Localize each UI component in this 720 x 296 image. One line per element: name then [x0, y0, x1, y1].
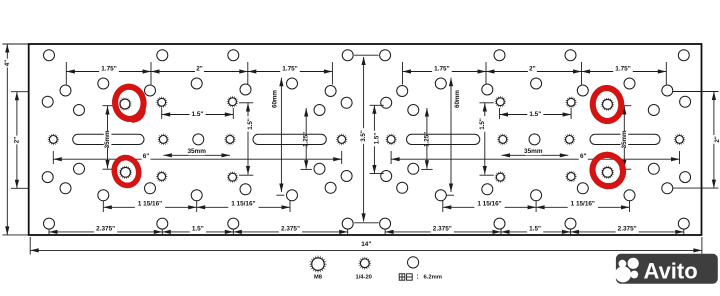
label 2in left — [13, 136, 21, 145]
svg-text:2.375": 2.375" — [618, 225, 637, 232]
dim 1.5in horizontal — [162, 108, 234, 119]
top dimension chain lines — [66, 62, 666, 85]
svg-text:Avito: Avito — [644, 259, 698, 284]
dim 1.5in vertical inner — [480, 103, 494, 175]
svg-text:1.5": 1.5" — [374, 133, 381, 145]
svg-text:35mm: 35mm — [104, 130, 111, 148]
label 2in right — [714, 135, 720, 144]
label 6in — [579, 153, 588, 161]
svg-text:1 15/16": 1 15/16" — [477, 201, 501, 208]
label 1 15/16 b — [568, 200, 598, 208]
dim 1.25in vertical at x=306.2 — [301, 108, 312, 169]
legend label diameter 6.2mm — [399, 274, 412, 280]
label 35mm — [525, 147, 541, 155]
svg-text:14": 14" — [361, 241, 371, 248]
red marker circle bottom-right — [593, 155, 624, 186]
bottom dimension chain — [49, 229, 684, 235]
svg-text:1.25": 1.25" — [423, 132, 430, 147]
Avito watermark badge — [615, 254, 718, 284]
label 1.5 bl — [190, 225, 206, 233]
svg-text:2": 2" — [13, 137, 20, 143]
svg-text:1.75": 1.75" — [434, 66, 449, 73]
svg-text:3.5": 3.5" — [360, 130, 367, 142]
svg-text:6": 6" — [143, 153, 150, 160]
label 35mm — [189, 147, 205, 155]
svg-text:1.5": 1.5" — [192, 225, 204, 232]
svg-text:1.5": 1.5" — [529, 225, 541, 232]
dim 1.25in vertical at x=426.9 — [421, 108, 432, 169]
label 2.375 bl1 — [94, 225, 117, 233]
legend M8 threaded hole symbol — [312, 258, 324, 270]
dim 35mm vertical — [619, 106, 631, 170]
svg-text:1/4-20: 1/4-20 — [355, 274, 371, 280]
label 14in — [360, 240, 373, 248]
svg-text:1 15/16": 1 15/16" — [231, 201, 255, 208]
svg-text:35mm: 35mm — [621, 130, 628, 148]
label 1.75in top-right2 — [613, 65, 633, 73]
svg-text:35mm: 35mm — [187, 148, 206, 155]
dim 35mm horizontal — [163, 153, 230, 157]
label 6in — [142, 153, 151, 161]
dim 60mm vertical — [446, 78, 454, 195]
svg-text:2.375": 2.375" — [96, 225, 115, 232]
red marker circle top-left — [115, 87, 144, 119]
top middle connector — [354, 54, 378, 56]
dim 35mm vertical — [103, 106, 115, 170]
label 2.375 bl2 — [279, 225, 302, 233]
svg-text:1.75": 1.75" — [282, 66, 297, 73]
bottom middle connector — [354, 222, 378, 224]
label 1.75in top-left2 — [280, 65, 300, 73]
label 1.75in top-right — [432, 65, 452, 73]
svg-text:： 6.2mm: ： 6.2mm — [416, 274, 442, 280]
label 1.5 br — [527, 225, 543, 233]
svg-text:4": 4" — [4, 60, 11, 66]
dim 14in bottom — [30, 237, 702, 255]
label 60mm — [271, 91, 279, 107]
svg-text:2": 2" — [714, 136, 720, 142]
legend plain hole symbol — [408, 257, 419, 268]
label 35mm vert — [104, 132, 112, 148]
svg-text:1 15/16": 1 15/16" — [571, 201, 595, 208]
dim 3.5in vertical — [362, 57, 366, 222]
svg-text:1 15/16": 1 15/16" — [138, 201, 162, 208]
label 1.5in inner — [247, 116, 255, 132]
svg-text:1.5": 1.5" — [529, 111, 541, 118]
svg-text:1.25": 1.25" — [303, 132, 310, 147]
svg-text:1.75": 1.75" — [615, 66, 630, 73]
dim 6in horizontal — [391, 151, 679, 164]
label 1.75in top-left — [99, 65, 119, 73]
svg-text:6": 6" — [580, 153, 587, 160]
label 35mm vert — [621, 132, 629, 148]
dim 1.5in vertical middle — [370, 105, 384, 173]
dim 35mm horizontal — [502, 153, 569, 157]
svg-text:2.375": 2.375" — [433, 225, 452, 232]
label 1 15/16 a — [135, 200, 165, 208]
dim 1.5in horizontal — [500, 108, 572, 119]
label 1 15/16 b — [228, 200, 258, 208]
label 2.375 br2 — [616, 225, 639, 233]
svg-text:1.75": 1.75" — [101, 66, 116, 73]
svg-text:M8: M8 — [314, 274, 323, 280]
label 1 15/16 a — [474, 200, 504, 208]
slot hole right outer — [590, 134, 660, 144]
dim 1.5in vertical inner — [239, 103, 253, 175]
svg-text:2": 2" — [529, 66, 536, 73]
svg-text:2.375": 2.375" — [281, 225, 300, 232]
svg-text:1.5": 1.5" — [479, 118, 486, 130]
slot hole right inner — [407, 134, 480, 144]
svg-text:1.5": 1.5" — [247, 118, 254, 130]
svg-text:60mm: 60mm — [271, 90, 278, 108]
label 1.5in middle — [373, 131, 381, 147]
svg-text:60mm: 60mm — [454, 90, 461, 108]
label 4in — [4, 59, 12, 68]
label 1.5in — [190, 110, 206, 118]
dim 4in left — [3, 44, 29, 235]
dim 60mm vertical — [276, 78, 284, 195]
label 3.5in — [360, 128, 368, 144]
red marker circle top-right — [593, 88, 622, 121]
svg-text:2": 2" — [196, 66, 203, 73]
label 1.5in — [527, 110, 543, 118]
dim 2in right — [673, 92, 719, 189]
slot hole left outer — [73, 134, 144, 144]
slot hole left inner — [253, 134, 326, 144]
red marker circle bottom-left — [114, 158, 138, 186]
dim 2in left — [11, 92, 29, 189]
dim 1 15/16 pair — [103, 201, 290, 213]
label 60mm — [454, 91, 462, 107]
legend 1/4-20 threaded hole symbol — [360, 259, 369, 268]
dim 1 15/16 pair — [443, 201, 630, 213]
label 1.5in inner — [479, 116, 487, 132]
svg-text:35mm: 35mm — [524, 148, 543, 155]
svg-text:1.5": 1.5" — [192, 111, 204, 118]
holes: plain and threaded pattern — [42, 50, 690, 229]
label 2.375 br1 — [431, 225, 454, 233]
label 2in top-right — [528, 65, 537, 73]
plate outline 14in x 4in — [29, 44, 702, 235]
label 2in top-left — [195, 65, 204, 73]
dim 6in horizontal — [53, 151, 341, 164]
